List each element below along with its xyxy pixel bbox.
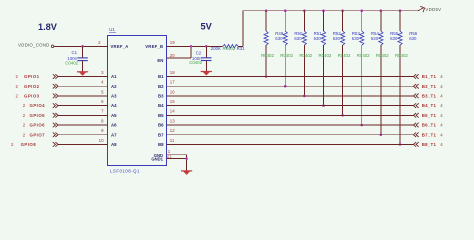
- svg-text:5: 5: [101, 89, 104, 94]
- svg-text:2: 2: [98, 40, 101, 45]
- junction bus/R53: [341, 9, 344, 12]
- junction R51/B3 wire: [303, 95, 306, 98]
- junction bus/R55: [380, 9, 383, 12]
- svg-text:3: 3: [101, 70, 104, 75]
- wire GPIO4 to pin A4: [58, 105, 108, 107]
- svg-text:B8_T1: B8_T1: [422, 142, 437, 147]
- wire GPIO3 to pin A3: [58, 95, 108, 97]
- off-page connector B6_T1: [414, 123, 419, 128]
- wire pin B3 to off-page: [167, 95, 414, 97]
- junction R54/B6 wire: [360, 124, 363, 127]
- svg-text:B4_T1: B4_T1: [422, 103, 437, 108]
- svg-text:2: 2: [16, 74, 19, 79]
- svg-text:B4: B4: [158, 103, 164, 108]
- svg-text:A8: A8: [111, 142, 117, 147]
- svg-text:R0402: R0402: [376, 53, 389, 58]
- wire GPIO5 to pin A5: [58, 114, 108, 116]
- junction R52/B4 wire: [322, 104, 325, 107]
- svg-text:20: 20: [170, 53, 175, 58]
- VDDIO_COND port circle: [51, 45, 54, 48]
- off-page connector B5_T1: [414, 113, 419, 118]
- wire pin 21 GND1: [167, 158, 187, 160]
- svg-text:B5: B5: [158, 113, 164, 118]
- power symbol VDD5V arrow: [418, 6, 424, 12]
- svg-text:9: 9: [101, 128, 104, 133]
- svg-text:B2: B2: [158, 84, 164, 89]
- svg-text:200K: 200K: [211, 46, 221, 51]
- svg-text:11: 11: [170, 138, 175, 143]
- svg-text:16: 16: [170, 89, 175, 94]
- svg-text:GPIO5: GPIO5: [30, 113, 46, 118]
- svg-text:2: 2: [23, 132, 26, 137]
- ground below C1: [77, 72, 88, 76]
- svg-text:R0402: R0402: [338, 53, 351, 58]
- svg-text:U1: U1: [109, 27, 115, 32]
- junction bus/R49: [265, 9, 268, 12]
- svg-text:4: 4: [440, 123, 443, 128]
- junction bus/R56: [399, 9, 402, 12]
- svg-text:GPIO8: GPIO8: [21, 142, 37, 147]
- svg-text:630: 630: [371, 36, 379, 41]
- resistor R52 (630): [321, 11, 325, 106]
- refdes U1: [109, 27, 116, 32]
- svg-text:GPIO7: GPIO7: [30, 132, 46, 137]
- svg-text:10: 10: [99, 138, 104, 143]
- ground symbol for U1: [181, 171, 192, 175]
- wire 5V bus: [243, 10, 418, 12]
- svg-text:A1: A1: [111, 74, 117, 79]
- svg-text:B1_T1: B1_T1: [422, 74, 437, 79]
- svg-text:2: 2: [16, 94, 19, 99]
- op-amp U1 box (LSF0108-Q1 level shifter): [108, 36, 167, 166]
- resistor R53 (630): [341, 11, 345, 116]
- svg-text:B7_T1: B7_T1: [422, 132, 437, 137]
- svg-text:VREF_A: VREF_A: [111, 44, 129, 49]
- wire pin B8 to off-page: [167, 143, 414, 145]
- svg-text:GPIO6: GPIO6: [30, 123, 46, 128]
- svg-text:2: 2: [23, 103, 26, 108]
- wire pin B1 to off-page: [167, 76, 414, 78]
- svg-text:R0402: R0402: [261, 53, 274, 58]
- svg-text:B2_T1: B2_T1: [422, 84, 437, 89]
- svg-text:B5_T1: B5_T1: [422, 113, 437, 118]
- resistor R49 (630): [264, 11, 268, 77]
- capacitor C1: [77, 46, 87, 72]
- svg-text:B3: B3: [158, 94, 164, 99]
- off-page connector GPIO7: [53, 132, 58, 137]
- svg-text:1.8V: 1.8V: [38, 22, 58, 32]
- svg-text:B1: B1: [158, 74, 164, 79]
- svg-text:19: 19: [170, 40, 175, 45]
- svg-text:4: 4: [440, 74, 443, 79]
- svg-text:15: 15: [170, 99, 175, 104]
- svg-text:GPIO3: GPIO3: [24, 94, 40, 99]
- svg-text:B8: B8: [158, 142, 164, 147]
- svg-text:B6_T1: B6_T1: [422, 123, 437, 128]
- svg-text:GND1: GND1: [151, 157, 163, 162]
- svg-text:A2: A2: [111, 84, 117, 89]
- svg-text:LSF0108-Q1: LSF0108-Q1: [110, 168, 140, 173]
- wire pin 1 GND: [167, 154, 187, 156]
- svg-text:C1: C1: [71, 50, 77, 55]
- svg-text:21: 21: [167, 153, 172, 158]
- svg-text:2: 2: [16, 84, 19, 89]
- svg-text:8: 8: [101, 118, 104, 123]
- svg-text:2: 2: [23, 123, 26, 128]
- wire GPIO2 to pin A2: [58, 85, 108, 87]
- junction C2 tap: [205, 45, 208, 48]
- svg-text:GPIO1: GPIO1: [24, 74, 40, 79]
- svg-text:C0402: C0402: [65, 61, 78, 66]
- svg-text:VDDIO_COND: VDDIO_COND: [18, 43, 49, 48]
- svg-text:VDD5V: VDD5V: [425, 7, 441, 12]
- svg-text:EN: EN: [157, 58, 163, 63]
- svg-text:2: 2: [23, 113, 26, 118]
- wire GND drop: [186, 155, 188, 171]
- svg-text:C0402: C0402: [189, 60, 202, 65]
- svg-text:12: 12: [170, 128, 175, 133]
- junction at C1 tap: [81, 45, 84, 48]
- resistor R54 (630): [360, 11, 364, 125]
- capacitor C2: [201, 46, 211, 71]
- junction R50/B2 wire: [284, 85, 287, 88]
- svg-text:B7: B7: [158, 132, 164, 137]
- svg-text:14: 14: [170, 109, 175, 114]
- wire pin B4 to off-page: [167, 105, 414, 107]
- junction bus/R52: [322, 9, 325, 12]
- wire GPIO8 to pin A8: [58, 143, 108, 145]
- svg-text:R0402: R0402: [395, 53, 408, 58]
- svg-text:5V: 5V: [201, 21, 213, 31]
- svg-text:GPIO2: GPIO2: [24, 84, 40, 89]
- junction bus/R51: [303, 9, 306, 12]
- svg-text:630: 630: [352, 36, 360, 41]
- svg-text:4: 4: [440, 103, 443, 108]
- off-page connector GPIO4: [53, 103, 58, 108]
- junction bus/R50: [284, 9, 287, 12]
- wire pin 20 EN: [167, 57, 192, 59]
- svg-text:4: 4: [440, 113, 443, 118]
- svg-text:4: 4: [440, 142, 443, 147]
- svg-text:A3: A3: [111, 94, 117, 99]
- svg-text:2: 2: [11, 142, 14, 147]
- svg-text:4: 4: [440, 84, 443, 89]
- junction R55/B7 wire: [380, 133, 383, 136]
- wire R31 to 5V riser: [238, 45, 243, 47]
- wire riser to 5V bus: [242, 11, 244, 47]
- off-page connector B4_T1: [414, 103, 419, 108]
- svg-text:A6: A6: [111, 123, 117, 128]
- svg-text:R0402: R0402: [299, 53, 312, 58]
- off-page connector GPIO3: [53, 94, 58, 99]
- junction R49/B1 wire: [265, 75, 268, 78]
- off-page connector B2_T1: [414, 84, 419, 89]
- junction EN/VREF_B: [190, 45, 193, 48]
- svg-text:B3_T1: B3_T1: [422, 94, 437, 99]
- wire VDDIO_COND to pin 2: [54, 45, 108, 47]
- svg-text:VREF_B: VREF_B: [145, 44, 163, 49]
- svg-text:B6: B6: [158, 123, 164, 128]
- wire EN riser to VREF_B net: [190, 46, 192, 58]
- svg-text:630: 630: [294, 36, 302, 41]
- wire pin 19 VREF_B to R31: [167, 45, 223, 47]
- svg-text:R31: R31: [237, 46, 246, 51]
- off-page connector GPIO1: [53, 74, 58, 79]
- svg-text:GPIO4: GPIO4: [30, 103, 46, 108]
- ground below C2: [201, 72, 212, 76]
- off-page connector GPIO6: [53, 123, 58, 128]
- off-page connector B7_T1: [414, 132, 419, 137]
- junction R56/B8 wire: [399, 143, 402, 146]
- off-page connector B8_T1: [414, 142, 419, 147]
- svg-text:13: 13: [170, 118, 175, 123]
- svg-text:630: 630: [333, 36, 341, 41]
- svg-text:7: 7: [101, 109, 104, 114]
- svg-text:R0402: R0402: [319, 53, 332, 58]
- wire GPIO7 to pin A7: [58, 134, 108, 136]
- off-page connector B1_T1: [414, 74, 419, 79]
- svg-text:630: 630: [314, 36, 322, 41]
- resistor R56 (630): [398, 11, 402, 145]
- svg-text:A4: A4: [111, 103, 117, 108]
- resistor R50 (630): [283, 11, 287, 87]
- svg-text:R0402: R0402: [357, 53, 370, 58]
- svg-text:R0402: R0402: [280, 53, 293, 58]
- wire GPIO1 to pin A1: [58, 76, 108, 78]
- svg-text:4: 4: [440, 94, 443, 99]
- wire GPIO6 to pin A6: [58, 124, 108, 126]
- junction R53/B5 wire: [341, 114, 344, 117]
- wire pin B2 to off-page: [167, 85, 414, 87]
- off-page connector GPIO5: [53, 113, 58, 118]
- svg-text:A7: A7: [111, 132, 117, 137]
- svg-text:4: 4: [440, 132, 443, 137]
- svg-text:6: 6: [101, 99, 104, 104]
- svg-text:A5: A5: [111, 113, 117, 118]
- off-page connector GPIO2: [53, 84, 58, 89]
- svg-text:630: 630: [409, 36, 417, 41]
- resistor R55 (630): [379, 11, 383, 135]
- svg-text:R0402: R0402: [223, 46, 236, 51]
- svg-text:C2: C2: [196, 50, 202, 55]
- svg-text:630: 630: [275, 36, 283, 41]
- wire pin B6 to off-page: [167, 124, 414, 126]
- wire pin B5 to off-page: [167, 114, 414, 116]
- wire pin B7 to off-page: [167, 134, 414, 136]
- resistor R51 (630): [302, 11, 306, 96]
- svg-text:17: 17: [170, 80, 175, 85]
- junction GND: [185, 157, 188, 160]
- resistor R31 (200K): [223, 45, 239, 49]
- svg-text:18: 18: [170, 70, 175, 75]
- svg-text:4: 4: [101, 80, 104, 85]
- junction bus/R54: [360, 9, 363, 12]
- off-page connector B3_T1: [414, 94, 419, 99]
- off-page connector GPIO8: [53, 142, 58, 147]
- svg-text:630: 630: [390, 36, 398, 41]
